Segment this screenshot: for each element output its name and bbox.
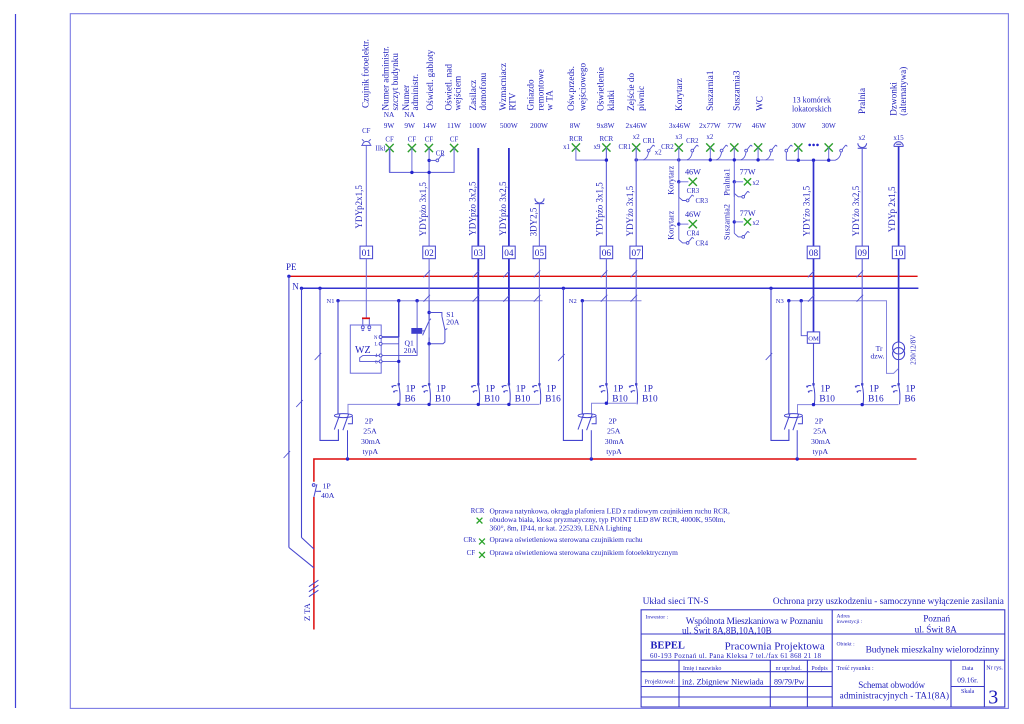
wire L terminal xyxy=(382,343,399,345)
time relay WZ box xyxy=(350,325,381,373)
wire lamp drop xyxy=(709,148,711,160)
svg-text:L: L xyxy=(374,343,377,348)
svg-text:Pracownia Projektowa: Pracownia Projektowa xyxy=(725,641,825,653)
svg-text:Imię i nazwisko: Imię i nazwisko xyxy=(683,666,721,672)
breaker 1P B10 (08) xyxy=(806,383,815,404)
svg-text:inwestycji :: inwestycji : xyxy=(837,619,863,625)
svg-text:20A: 20A xyxy=(446,317,460,326)
svg-text:CF: CF xyxy=(362,128,371,135)
svg-text:89/79/Pw: 89/79/Pw xyxy=(774,678,805,687)
wire transformer to breaker B6 xyxy=(898,369,900,385)
terminal box 01 xyxy=(360,246,373,259)
svg-text:lokatorskich: lokatorskich xyxy=(792,105,832,114)
svg-text:46W: 46W xyxy=(685,168,701,177)
svg-text:B10: B10 xyxy=(642,394,658,404)
wire to lamp CR4 xyxy=(679,223,689,225)
socket outlet pralnia xyxy=(858,143,867,148)
svg-text:YDYpżo 3x2,5: YDYpżo 3x2,5 xyxy=(498,181,508,236)
svg-text:Oprawa oświetleniowa sterowana: Oprawa oświetleniowa sterowana czujnikie… xyxy=(490,535,643,544)
svg-text:x2: x2 xyxy=(633,134,640,141)
svg-text:B10: B10 xyxy=(819,394,835,404)
N tap slash 08 xyxy=(808,295,815,302)
svg-text:360°, 8m, IP44, nr kat. 225239: 360°, 8m, IP44, nr kat. 225239, LENA Lig… xyxy=(490,523,632,532)
N tap slash 09 xyxy=(857,295,864,302)
svg-text:N: N xyxy=(292,281,299,291)
wire 07 down to breaker xyxy=(635,259,637,385)
svg-text:x9: x9 xyxy=(594,144,601,151)
wire vertical N1 to N terminal xyxy=(398,301,400,337)
node branch pralnia1 xyxy=(733,180,736,183)
svg-text:2P: 2P xyxy=(609,416,618,425)
node branch CR3 xyxy=(677,180,680,183)
terminal box 02 xyxy=(423,246,436,259)
svg-text:Oprawa oświetleniowa sterowana: Oprawa oświetleniowa sterowana czujnikie… xyxy=(490,548,679,557)
svg-text:(alternatywa): (alternatywa) xyxy=(898,67,908,116)
svg-text:2P: 2P xyxy=(365,416,374,425)
svg-text:Zejście do: Zejście do xyxy=(626,72,636,110)
svg-text:11W: 11W xyxy=(447,121,461,130)
svg-text:typA: typA xyxy=(813,447,829,456)
svg-text:Projektował:: Projektował: xyxy=(645,680,676,686)
svg-text:Gniazdo: Gniazdo xyxy=(526,79,536,111)
svg-text:Zasilacz: Zasilacz xyxy=(468,80,478,111)
breaker 1P B10 (03) xyxy=(471,383,480,404)
svg-text:CF: CF xyxy=(385,136,394,143)
svg-text:46W: 46W xyxy=(752,121,766,130)
wire to switch xyxy=(734,233,742,237)
svg-text:Pralnia1: Pralnia1 xyxy=(723,168,732,195)
breaker output bus 3 xyxy=(798,405,899,415)
svg-text:Oświetlenie: Oświetlenie xyxy=(595,67,605,111)
svg-text:N2: N2 xyxy=(569,298,577,305)
wire circuit 07 main xyxy=(635,148,637,247)
svg-text:03: 03 xyxy=(474,249,484,259)
wire lamp3 drop / circuit02 main xyxy=(428,148,430,246)
PE tap slash 09 xyxy=(857,270,864,277)
svg-text:1P: 1P xyxy=(516,384,526,394)
svg-text:2P: 2P xyxy=(815,416,824,425)
svg-text:YDYp2x1,5: YDYp2x1,5 xyxy=(354,185,364,229)
svg-text:CF: CF xyxy=(425,136,434,143)
wire N2 drop to RCD2 xyxy=(581,301,583,415)
svg-text:Dzwonki: Dzwonki xyxy=(888,82,898,116)
node branch suszarnia2 xyxy=(733,220,736,223)
wire vertical L to breaker B6 xyxy=(398,337,400,384)
svg-text:Treść rysunku :: Treść rysunku : xyxy=(837,666,874,672)
lamp suszarnia1 2x77W xyxy=(706,143,714,151)
svg-text:3x46W: 3x46W xyxy=(669,121,691,130)
svg-text:YDYżo 3x2,5: YDYżo 3x2,5 xyxy=(851,185,861,236)
svg-text:02: 02 xyxy=(424,249,434,259)
lamp CF 14W xyxy=(425,144,433,152)
svg-text:77W: 77W xyxy=(727,121,741,130)
svg-text:N: N xyxy=(374,336,378,341)
switch suszarnia3 xyxy=(745,145,753,152)
wire lamp bus 06 xyxy=(576,148,607,161)
svg-text:wejściowego: wejściowego xyxy=(578,63,588,111)
svg-text:ul. Świt 8A: ul. Świt 8A xyxy=(915,624,957,636)
svg-text:1P: 1P xyxy=(436,384,446,394)
PE tap slash 03 xyxy=(473,270,480,277)
sensor switch CR3 xyxy=(686,195,694,202)
svg-text:230/12/8V: 230/12/8V xyxy=(909,335,917,365)
conductor slash xyxy=(558,354,565,361)
svg-text:30W: 30W xyxy=(822,121,836,130)
breaker 1P B10 (02) xyxy=(422,383,431,404)
wire circuit 08 main xyxy=(813,160,815,246)
wire circuit 10 main xyxy=(898,146,900,246)
svg-text:Nr rys.: Nr rys. xyxy=(986,666,1003,672)
svg-text:ul. Świt 8A,8B,10A,10B: ul. Świt 8A,8B,10A,10B xyxy=(682,625,772,635)
svg-text:1P: 1P xyxy=(323,481,332,490)
svg-text:nr upr.bud.: nr upr.bud. xyxy=(776,666,803,672)
svg-text:CF: CF xyxy=(467,550,476,557)
svg-text:typA: typA xyxy=(363,447,379,456)
svg-text:1P: 1P xyxy=(406,384,416,394)
PE tap slash 08 xyxy=(808,270,815,277)
bell symbol xyxy=(894,142,904,147)
wire N drop left xyxy=(301,288,303,537)
terminal box 10 xyxy=(892,246,905,259)
PE tap slash 07 xyxy=(631,270,638,277)
sensor switch CR4 xyxy=(686,237,694,244)
svg-text:inż. Zbigniew Niewiada: inż. Zbigniew Niewiada xyxy=(682,677,764,687)
svg-text:CR3: CR3 xyxy=(696,198,709,205)
wire lamp drop xyxy=(828,148,830,161)
svg-text:CR1: CR1 xyxy=(643,138,655,145)
wire OM to breaker xyxy=(813,343,815,384)
wire 01 tip red xyxy=(362,317,370,319)
wire to switch xyxy=(734,182,742,197)
lamp pralnia1 77W xyxy=(744,178,751,185)
svg-text:25A: 25A xyxy=(607,427,621,436)
svg-text:CR4: CR4 xyxy=(687,231,700,238)
svg-text:Z TA: Z TA xyxy=(302,602,312,621)
svg-text:25A: 25A xyxy=(813,427,827,436)
svg-text:77W: 77W xyxy=(740,168,756,177)
wire N return RCD1 xyxy=(320,288,338,440)
svg-text:1P: 1P xyxy=(485,384,495,394)
lamp korytarz 3x46W xyxy=(675,143,683,151)
svg-text:Układ sieci TN-S: Układ sieci TN-S xyxy=(643,597,709,607)
ellipsis dots xyxy=(808,144,811,147)
wire 09 down to breaker xyxy=(861,259,863,385)
socket outlet symbol xyxy=(535,198,544,203)
svg-text:Podpis: Podpis xyxy=(811,666,828,672)
lamp korytarz 46W CR4 xyxy=(689,220,697,228)
lamp CF 9W xyxy=(408,144,416,152)
svg-text:10: 10 xyxy=(894,249,904,259)
wire terminal 4 to Q1 coil xyxy=(382,334,417,356)
wire to lamp xyxy=(734,181,743,183)
svg-text:CRx: CRx xyxy=(464,537,477,544)
svg-text:30mA: 30mA xyxy=(361,437,381,446)
svg-text:Obiekt :: Obiekt : xyxy=(837,642,856,648)
svg-text:B10: B10 xyxy=(435,394,451,404)
svg-text:YDYp 2x1,5: YDYp 2x1,5 xyxy=(887,186,897,232)
svg-text:04: 04 xyxy=(504,249,514,259)
wire Q1 contact to breaker xyxy=(428,344,430,385)
svg-text:3DY2,5: 3DY2,5 xyxy=(529,207,539,236)
wire switch drop xyxy=(785,152,787,160)
svg-text:x3: x3 xyxy=(675,134,682,141)
conductor slash on N return xyxy=(315,353,322,360)
svg-text:x2: x2 xyxy=(753,220,760,227)
svg-text:B6: B6 xyxy=(405,394,416,404)
table frame xyxy=(641,610,1005,707)
wire circuit 09 main xyxy=(861,148,863,246)
svg-text:06: 06 xyxy=(602,249,612,259)
svg-text:N3: N3 xyxy=(776,298,784,305)
wire lamp drop / sub feeder xyxy=(733,148,735,197)
svg-text:YDYpżo 3x1,5: YDYpżo 3x1,5 xyxy=(418,182,428,237)
wire PE drop left xyxy=(288,276,290,547)
svg-text:08: 08 xyxy=(809,249,819,259)
svg-text:60-193 Poznań ul. Pana Kleks: 60-193 Poznań ul. Pana Kleksa 7 tel./fax… xyxy=(650,652,822,660)
svg-text:x2: x2 xyxy=(707,134,714,141)
lamp CF 11W xyxy=(450,144,458,152)
svg-text:01: 01 xyxy=(362,249,372,259)
lamp suszarnia3 77W xyxy=(730,143,738,151)
svg-text:20A: 20A xyxy=(404,346,418,355)
svg-text:05: 05 xyxy=(535,249,545,259)
wire group bus xyxy=(390,148,455,172)
svg-text:piwnic: piwnic xyxy=(636,86,646,111)
svg-text:CR2: CR2 xyxy=(686,138,699,145)
svg-text:30mA: 30mA xyxy=(605,437,625,446)
wire to lamp CR3 xyxy=(679,181,689,183)
N tap slash 03 xyxy=(473,295,480,302)
wire lamp drop xyxy=(757,148,759,160)
svg-text:w TA: w TA xyxy=(544,90,554,111)
wire 03 down to breaker xyxy=(477,259,479,385)
svg-text:B16: B16 xyxy=(545,394,561,404)
lamp 2x46W xyxy=(632,143,640,151)
lamp WC 46W xyxy=(754,143,762,151)
svg-text:Suszarnia3: Suszarnia3 xyxy=(731,70,741,111)
wire lamp2 drop xyxy=(411,148,413,172)
svg-text:07: 07 xyxy=(632,249,642,259)
svg-text:Oświetl. gabloty: Oświetl. gabloty xyxy=(425,49,435,110)
svg-text:YDYżo 3x1,5: YDYżo 3x1,5 xyxy=(802,185,812,236)
svg-text:Czujnik fotoelektr.: Czujnik fotoelektr. xyxy=(360,39,370,108)
svg-text:CR3: CR3 xyxy=(687,188,700,195)
wire terminal 6 xyxy=(382,360,399,362)
switch pralnia1 xyxy=(742,191,750,198)
svg-text:30W: 30W xyxy=(792,121,806,130)
wire N1 drop to RCD1 xyxy=(337,301,339,415)
wire Q1 coil top to N1 xyxy=(416,301,418,329)
breaker 1P B10 (07) xyxy=(629,383,638,404)
wire RCD2 to feed bus xyxy=(590,430,592,459)
terminal box 09 xyxy=(856,246,869,259)
svg-text:administracyjnych - TA1(8A): administracyjnych - TA1(8A) xyxy=(840,690,950,700)
svg-text:9x8W: 9x8W xyxy=(597,121,615,130)
Q1 linkage xyxy=(422,330,425,332)
breaker 1P B6 (10) xyxy=(891,383,900,404)
wire RCD3 to feed bus xyxy=(796,430,798,459)
wire circuit 03 main xyxy=(477,148,479,246)
breaker 1P B6 xyxy=(391,383,400,404)
photocell sensor CF xyxy=(361,139,371,145)
N tap slash 04 xyxy=(503,295,510,302)
svg-text:NA: NA xyxy=(404,110,415,119)
svg-text:x1: x1 xyxy=(563,144,570,151)
breaker 1P B16 (09) xyxy=(855,383,864,404)
svg-text:77W: 77W xyxy=(740,209,756,218)
suszarnia2 sub feeder xyxy=(733,182,735,234)
svg-text:40A: 40A xyxy=(321,491,335,500)
svg-text:x15: x15 xyxy=(893,135,904,142)
wire 02 down xyxy=(428,259,430,344)
N tap slash 05 xyxy=(534,295,541,302)
svg-text:13 komórek: 13 komórek xyxy=(793,96,831,105)
node branch CR4 xyxy=(677,222,680,225)
svg-text:2x46W: 2x46W xyxy=(626,121,648,130)
svg-text:CR2: CR2 xyxy=(661,144,674,151)
fold mark line at far left xyxy=(15,14,17,708)
wire N3 drop to RCD3 xyxy=(788,301,790,415)
switch WC xyxy=(770,145,778,152)
RCD 2P 25A 30mA typA xyxy=(334,414,352,431)
conductor slash on PE drop xyxy=(284,451,291,458)
svg-text:B6: B6 xyxy=(905,394,916,404)
svg-text:CR4: CR4 xyxy=(696,241,709,248)
wire PE diagonal to feeder xyxy=(289,548,314,568)
wire CR1 drop xyxy=(643,152,648,160)
svg-text:RCR: RCR xyxy=(569,136,583,143)
svg-text:Korytarz: Korytarz xyxy=(667,210,676,239)
wire RCD1 to feed bus xyxy=(347,430,349,459)
wire N return RCD3 xyxy=(771,288,789,440)
wire 06 down to breaker xyxy=(605,259,607,385)
korytarz sub feeder 2 xyxy=(678,182,680,240)
svg-text:B16: B16 xyxy=(868,394,884,404)
wire to switch CR4 xyxy=(679,240,686,243)
svg-text:RCR: RCR xyxy=(600,136,614,143)
svg-text:1P: 1P xyxy=(643,384,653,394)
svg-text:PE: PE xyxy=(286,262,297,272)
svg-text:Ośw.przeds.: Ośw.przeds. xyxy=(566,66,576,111)
svg-text:N1: N1 xyxy=(327,298,335,305)
svg-text:OM: OM xyxy=(808,336,819,343)
wire N diagonal to feeder xyxy=(302,538,314,550)
svg-text:09: 09 xyxy=(858,249,868,259)
svg-text:1P: 1P xyxy=(546,384,556,394)
conductor slash xyxy=(766,353,773,360)
svg-text:14W: 14W xyxy=(422,121,436,130)
N tap slash 02 xyxy=(424,295,431,302)
svg-text:CF: CF xyxy=(408,136,417,143)
Q1 contact xyxy=(423,301,431,344)
svg-text:YDYżo 3x1,5: YDYżo 3x1,5 xyxy=(625,185,635,236)
svg-text:9W: 9W xyxy=(384,121,395,130)
N tap slash 07 xyxy=(631,295,638,302)
breaker 1P B16 (05) xyxy=(532,383,541,404)
svg-text:YDYpżo 3x2,5: YDYpżo 3x2,5 xyxy=(468,181,478,236)
lamp komorki 30W xyxy=(794,143,802,151)
lamp korytarz 46W CR3 xyxy=(689,178,697,186)
wire circuit 06 main xyxy=(605,148,607,247)
svg-text:Wzmacniacz: Wzmacniacz xyxy=(498,63,508,110)
svg-text:Korytarz: Korytarz xyxy=(667,165,676,194)
switch komorki right xyxy=(840,145,848,152)
terminal box 07 xyxy=(630,246,643,259)
breaker output bus 1 xyxy=(348,404,539,414)
svg-text:30mA: 30mA xyxy=(811,437,831,446)
svg-text:200W: 200W xyxy=(530,121,548,130)
wire 08 down xyxy=(813,259,815,333)
PE tap slash 04 xyxy=(503,270,510,277)
wire 01 to WZ xyxy=(365,259,367,318)
svg-text:Ochrona przy uszkodzeniu - sam: Ochrona przy uszkodzeniu - samoczynne wy… xyxy=(773,597,1004,607)
svg-text:szczyt budynku: szczyt budynku xyxy=(390,53,400,111)
lamp RCR 9x8W xyxy=(602,143,610,151)
svg-text:B10: B10 xyxy=(484,394,500,404)
svg-text:1P: 1P xyxy=(869,384,879,394)
svg-text:Numer administr.: Numer administr. xyxy=(380,46,390,110)
terminal box 05 xyxy=(533,246,546,259)
wire N terminal to N1 xyxy=(382,336,399,338)
RCD 2P 25A 30mA typA xyxy=(578,414,596,431)
svg-text:typA: typA xyxy=(606,447,622,456)
wire N return RCD2 xyxy=(563,288,582,440)
svg-text:YDYpżo 3x1,5: YDYpżo 3x1,5 xyxy=(595,182,605,237)
svg-text:x2: x2 xyxy=(859,135,866,142)
svg-text:WC: WC xyxy=(754,96,764,111)
sensor switch CR xyxy=(429,159,436,161)
svg-text:3: 3 xyxy=(988,687,998,709)
lamp komorki 30W b xyxy=(825,143,833,151)
wire to switch CR3 xyxy=(679,197,686,200)
lamp cluster bus 08 xyxy=(786,159,835,161)
wire circuit 01 drop xyxy=(365,145,367,246)
wire 10 down to transformer xyxy=(898,259,900,343)
svg-text:dzw.: dzw. xyxy=(870,351,884,360)
svg-text:Korytarz: Korytarz xyxy=(674,78,684,111)
PE tap slash 06 xyxy=(601,270,608,277)
svg-text:1P: 1P xyxy=(820,384,830,394)
WZ plug leads xyxy=(361,319,371,331)
breaker 1P B10 (06) xyxy=(599,383,608,404)
svg-text:Budynek mieszkalny wielorodzin: Budynek mieszkalny wielorodzinny xyxy=(866,646,1000,656)
cable marking slashes xyxy=(309,580,319,597)
breaker 1P B10 (04) xyxy=(502,383,511,404)
contactor Q1 coil xyxy=(412,328,422,333)
wire circuit 04 main xyxy=(508,148,510,246)
svg-text:BEPEL: BEPEL xyxy=(650,641,685,652)
svg-text:2x77W: 2x77W xyxy=(699,121,721,130)
svg-text:25A: 25A xyxy=(363,427,377,436)
svg-text:CF: CF xyxy=(450,136,459,143)
wire lamp drop xyxy=(797,148,799,161)
svg-text:B10: B10 xyxy=(515,394,531,404)
PE tap slash 05 xyxy=(534,270,541,277)
svg-text:administr.: administr. xyxy=(410,74,420,111)
korytarz sub feeder xyxy=(678,148,680,198)
wire CR2 drop xyxy=(687,152,692,160)
lamp cluster bus 07 xyxy=(636,159,774,161)
svg-text:klatki: klatki xyxy=(606,90,616,111)
lamp RCR 8W xyxy=(572,143,580,151)
svg-text:CR1: CR1 xyxy=(619,144,631,151)
lamp suszarnia2 77W xyxy=(744,218,751,225)
svg-text:Pralnia: Pralnia xyxy=(857,88,867,114)
WZ internal contact xyxy=(360,355,379,361)
terminal box 03 xyxy=(472,246,485,259)
svg-text:domofonu: domofonu xyxy=(478,72,488,110)
svg-text:Suszarnia2: Suszarnia2 xyxy=(723,204,732,240)
